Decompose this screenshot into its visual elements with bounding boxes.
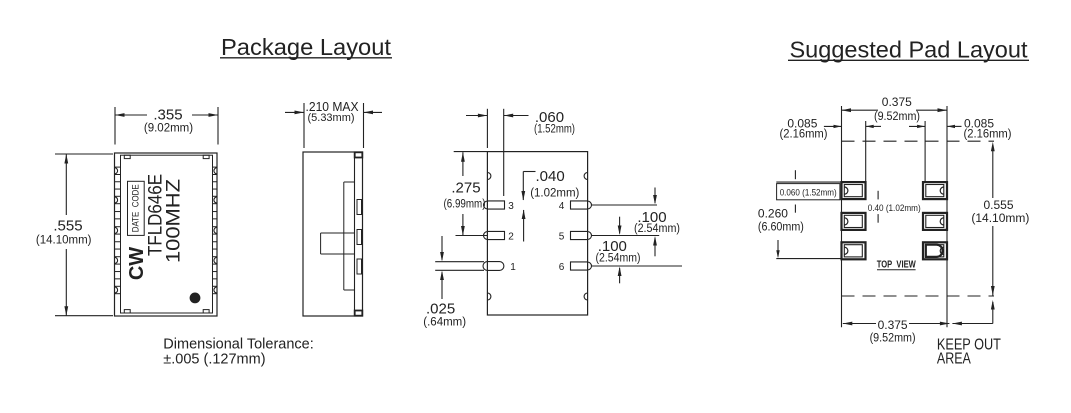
svg-text:Suggested Pad Layout: Suggested Pad Layout — [790, 37, 1029, 63]
svg-text:(2.16mm): (2.16mm) — [964, 128, 1012, 140]
svg-text:(9.52mm): (9.52mm) — [870, 333, 916, 345]
svg-text:.040: .040 — [536, 168, 565, 185]
svg-text:AREA: AREA — [937, 351, 972, 368]
svg-text:(1.52mm): (1.52mm) — [534, 124, 575, 136]
svg-text:(9.02mm): (9.02mm) — [144, 122, 193, 134]
svg-text:Package Layout: Package Layout — [221, 34, 392, 60]
svg-text:(2.54mm): (2.54mm) — [634, 223, 680, 235]
svg-text:.355: .355 — [153, 107, 182, 124]
svg-text:DATE CODE: DATE CODE — [131, 184, 142, 232]
svg-text:6: 6 — [559, 262, 565, 273]
svg-text:0.40 (1.02mm): 0.40 (1.02mm) — [868, 203, 921, 214]
svg-text:(6.99mm): (6.99mm) — [444, 199, 486, 211]
svg-text:(.64mm): (.64mm) — [423, 316, 466, 328]
svg-text:2: 2 — [508, 232, 514, 243]
svg-text:.555: .555 — [53, 218, 82, 235]
svg-text:(14.10mm): (14.10mm) — [971, 213, 1029, 225]
svg-text:(1.02mm): (1.02mm) — [530, 187, 579, 199]
svg-text:.275: .275 — [451, 180, 480, 197]
svg-text:(9.52mm): (9.52mm) — [874, 111, 920, 123]
svg-text:0.260: 0.260 — [758, 207, 788, 221]
svg-text:Dimensional Tolerance:: Dimensional Tolerance: — [163, 337, 313, 353]
svg-text:0.375: 0.375 — [882, 95, 912, 109]
svg-text:0.375: 0.375 — [878, 318, 908, 332]
svg-text:CW: CW — [126, 247, 148, 280]
svg-text:100MHZ: 100MHZ — [164, 179, 185, 263]
svg-text:1: 1 — [510, 262, 516, 273]
svg-text:(2.16mm): (2.16mm) — [780, 128, 828, 140]
svg-text:±.005 (.127mm): ±.005 (.127mm) — [163, 352, 265, 368]
svg-text:3: 3 — [508, 201, 514, 212]
svg-text:(14.10mm): (14.10mm) — [36, 235, 92, 247]
svg-text:4: 4 — [559, 201, 565, 212]
svg-text:0.060 (1.52mm): 0.060 (1.52mm) — [780, 187, 837, 197]
svg-text:0.555: 0.555 — [983, 198, 1013, 212]
svg-text:5: 5 — [559, 232, 565, 243]
svg-text:(5.33mm): (5.33mm) — [308, 112, 355, 124]
svg-text:(6.60mm): (6.60mm) — [758, 222, 804, 234]
svg-text:(2.54mm): (2.54mm) — [596, 253, 641, 265]
svg-text:.025: .025 — [426, 301, 455, 318]
svg-text:TOP VIEW: TOP VIEW — [877, 259, 916, 271]
